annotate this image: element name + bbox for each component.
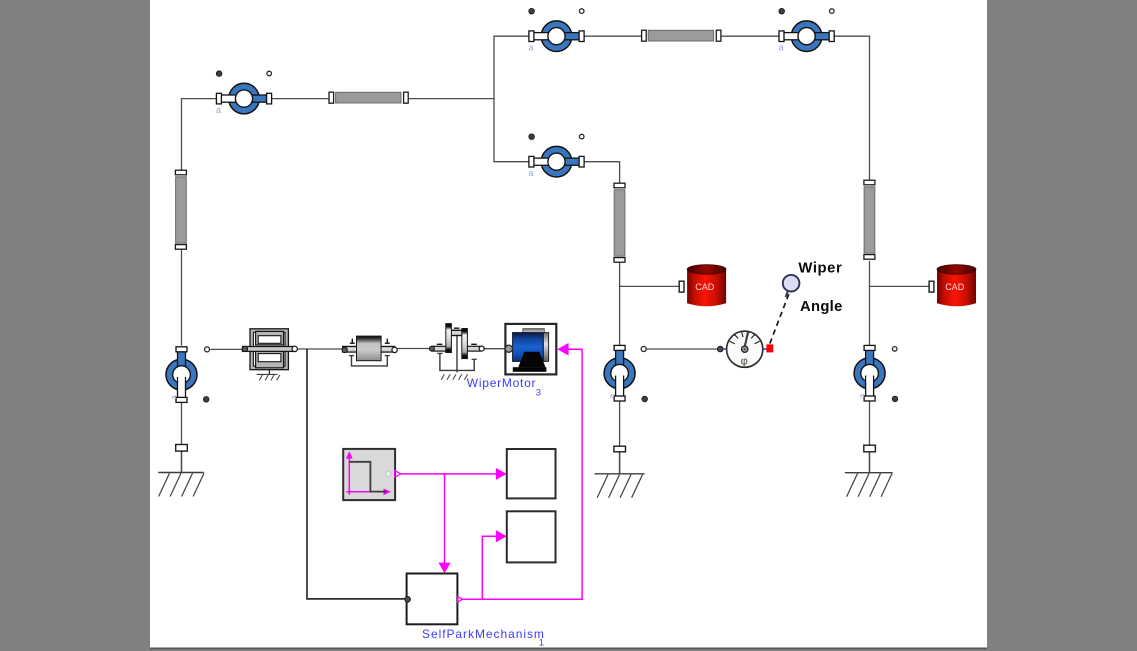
bodyBox rod vertical (middle column) [614, 183, 625, 262]
wire: inertia output to clutch input [397, 348, 430, 350]
wire: joint4 right flange to right column down to right rod [834, 36, 869, 180]
bodyBox rod horizontal (top, between joint2 and joint4) [642, 30, 721, 41]
revolute joint a (top-left) [216, 71, 272, 115]
fixed flange (middle column) [614, 446, 626, 452]
svg-text:Wiper: Wiper [798, 261, 842, 277]
wire: SelfParkMechanism output to right riser [462, 349, 582, 599]
bodyBox rod vertical (left column) [175, 170, 186, 249]
clutch / bearing friction [429, 324, 484, 380]
wire: right fixed flange stem to ground [869, 452, 871, 473]
Box1 (upper white block) [507, 449, 556, 498]
wire: joint1 left flange to left column corner down to left rod [182, 99, 217, 171]
fixed flange (right column) [864, 445, 876, 452]
svg-text:φ: φ [741, 355, 748, 367]
wire: right rod bottom to right revolute top [869, 261, 871, 346]
arrow into Box1 [496, 468, 507, 480]
fixed flange (left column) [176, 445, 188, 452]
diagram white canvas [150, 0, 987, 648]
wire: rod2 right flange to joint4 left flange [722, 35, 780, 37]
svg-text:3: 3 [536, 387, 541, 398]
wire: branch down to SelfParkMechanism top [444, 474, 446, 563]
arrow into WiperMotor right edge [557, 343, 568, 356]
wire: middle revolute bottom to fixed flange [619, 400, 621, 446]
wire: axis connector to gearbox input [210, 348, 243, 350]
step source block [343, 449, 401, 500]
svg-text:CAD: CAD [695, 282, 715, 292]
axis connector circle of left revolute [205, 347, 210, 352]
wire: left rod bottom to left revolute top [181, 250, 183, 346]
svg-text:a: a [779, 43, 784, 53]
ground (left column) [158, 473, 204, 497]
bottom scrollbar gray [150, 649, 987, 651]
wire: right column branch to CAD flange [870, 285, 930, 287]
CAD body cylinder (middle column) [679, 265, 726, 307]
wire: middle axis connector to angle gauge [646, 348, 718, 350]
wire: clutch output to motor flange [484, 348, 506, 350]
wire: middle fixed flange stem to ground [619, 452, 621, 473]
svg-text:Angle: Angle [800, 299, 843, 315]
inertia / gear element [342, 336, 397, 366]
svg-text:1: 1 [539, 638, 544, 649]
arrow into Box2 [496, 530, 507, 542]
SelfParkMechanism block [405, 574, 463, 625]
svg-text:a: a [216, 105, 221, 115]
wire: branch up to Box2 [482, 536, 497, 599]
wire: black feedback line from drivetrain junction down to SelfParkMechanism [307, 349, 405, 599]
arrow into SelfParkMechanism top [438, 563, 450, 574]
revolute joint vertical (middle wiper shaft) [604, 345, 647, 401]
ground (right column) [845, 473, 893, 497]
revolute joint vertical (left wiper shaft) [166, 347, 209, 403]
wire: right revolute bottom to fixed flange [869, 400, 871, 445]
svg-text:a: a [529, 43, 534, 53]
svg-text:a: a [529, 168, 534, 178]
svg-text:WiperMotor: WiperMotor [467, 376, 537, 390]
op block WiperMotor3 [505, 324, 556, 375]
bodyBox rod horizontal (left, between joint1 and junction) [329, 92, 408, 103]
Box2 (lower white block) [507, 511, 556, 562]
wire: gearbox output to inertia input [297, 348, 343, 350]
svg-text:SelfParkMechanism: SelfParkMechanism [422, 627, 545, 641]
ground (middle column) [595, 474, 645, 498]
label SelfParkMechanism1 [422, 627, 545, 649]
wire: left revolute bottom to fixed flange [181, 400, 183, 444]
gauge blue stubs [723, 348, 727, 350]
output red square [766, 344, 773, 352]
revolute joint vertical (right wiper shaft) [854, 345, 898, 401]
dashed annotation line [770, 294, 789, 344]
axis connector circle of middle revolute [641, 347, 646, 352]
gauge connection dot [717, 346, 723, 352]
revolute joint a (top-middle) [529, 8, 585, 52]
wire: joint3 right flange to middle column down to middle rod [582, 162, 620, 184]
svg-text:CAD: CAD [945, 282, 965, 292]
CAD body cylinder (right column) [929, 265, 976, 307]
wire: left fixed flange stem to ground [181, 451, 183, 472]
label WiperMotor3 [467, 376, 541, 398]
annotation balloon circle [783, 275, 800, 297]
gearbox with housing [242, 329, 297, 381]
wire: joint1 right flange to horizontal rod1 [271, 98, 330, 100]
bodyBox rod vertical (right column) [864, 180, 875, 259]
wire: joint2 right flange to horizontal rod2 [584, 35, 642, 37]
wire: step output to Box1 [401, 473, 498, 475]
angle gauge sensor [727, 331, 763, 367]
wire: rod1 right flange to junction x494 [408, 98, 494, 100]
revolute joint a (top-right) [779, 8, 835, 52]
wire: junction riser x494 joining joint2 and joint3 [494, 36, 529, 162]
revolute joint a (mid-left of fork) [529, 134, 585, 178]
bottom scrollbar dark line [150, 648, 987, 650]
wire: middle column branch to CAD flange [620, 285, 680, 287]
wire: middle rod bottom to middle revolute top [619, 262, 621, 346]
